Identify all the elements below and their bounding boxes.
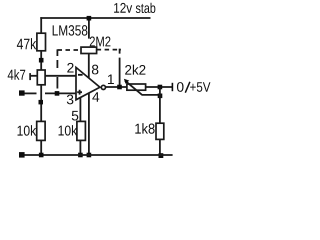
node dot pin4 rail bbox=[87, 153, 92, 158]
node dot wiper 1k8 bbox=[158, 94, 163, 99]
label 2M2 bbox=[90, 36, 111, 46]
pin label 2 bbox=[67, 63, 73, 73]
label LM358 bbox=[53, 25, 88, 35]
wire dashed feedback left horizontal bbox=[58, 49, 82, 51]
wire 10k mid to rail bbox=[79, 140, 81, 155]
wire pin4 down bbox=[88, 93, 90, 155]
node dot output feedback bbox=[117, 85, 122, 90]
label 10k mid bbox=[59, 125, 78, 136]
wire 1k8 upper bbox=[159, 87, 161, 123]
wire 10k left to bottom rail bbox=[40, 140, 42, 155]
pin label 3 bbox=[67, 95, 74, 105]
wire pin8 upper bbox=[88, 18, 90, 39]
trimmer 2k2 body bbox=[127, 84, 146, 90]
node dot pin3 feedback junction bbox=[55, 91, 60, 96]
node dot 10k mid rail bbox=[78, 153, 83, 158]
label 12v bbox=[114, 3, 132, 13]
pin label 5 bbox=[72, 111, 79, 121]
trimmer 2k2 arrowhead bbox=[124, 79, 129, 84]
op-amp minus sign bbox=[78, 74, 83, 76]
ground terminal square bbox=[19, 152, 25, 158]
node dot below 47k bbox=[39, 58, 44, 63]
label 47k bbox=[17, 38, 36, 49]
node dot chain rail bbox=[39, 153, 44, 158]
label stab bbox=[136, 3, 156, 13]
resistor 47k bbox=[37, 33, 46, 51]
wire dashed feedback left vertical bbox=[56, 49, 58, 88]
node dot 1k8 rail bbox=[159, 153, 164, 158]
wire 4k7 down to 10k bbox=[40, 85, 42, 122]
label 4k7 bbox=[8, 69, 26, 80]
wire 47k to 4k7 bbox=[40, 51, 42, 71]
op-amp output bubble bbox=[101, 85, 105, 89]
resistor 1k8 bbox=[156, 123, 164, 139]
op-amp plus sign bbox=[77, 90, 82, 95]
label +5V bbox=[190, 82, 210, 92]
output terminal tick bbox=[172, 83, 174, 91]
input terminal square pin3 line bbox=[19, 90, 25, 95]
resistor 10k mid bbox=[77, 121, 86, 140]
pin label 4 bbox=[92, 92, 99, 101]
input terminal tick bbox=[29, 73, 31, 80]
op-amp U1 LM358 triangle bbox=[76, 67, 100, 99]
trimmer wiper wire bbox=[142, 94, 160, 96]
wire input tick to 4k7 bbox=[30, 75, 37, 77]
resistor 10k left bbox=[37, 121, 45, 140]
wire dashed feedback right horizontal bbox=[97, 49, 121, 51]
wire pin3 left segment bbox=[25, 92, 37, 94]
wire 12V top rail bbox=[40, 17, 150, 19]
wire 2k2 to output terminal bbox=[146, 86, 173, 88]
wire output pin1 bbox=[106, 86, 128, 88]
bottom rail wire bbox=[25, 154, 173, 156]
wire 4k7 to op-amp pin2 bbox=[45, 75, 76, 77]
trimmer 2k2 arrow bbox=[125, 81, 142, 95]
node dot pin8 rail bbox=[87, 16, 92, 21]
wire pin5 down bbox=[79, 98, 81, 122]
label 2k2 bbox=[125, 65, 145, 75]
wire pin8 lower bbox=[88, 54, 90, 78]
label 10k left bbox=[18, 125, 37, 136]
pin label 1 bbox=[108, 75, 114, 84]
resistor 2M2 bbox=[81, 47, 97, 53]
node dot 1k8 top bbox=[158, 85, 163, 90]
pin label 8 bbox=[92, 65, 98, 75]
wire left chain top segment bbox=[40, 17, 42, 33]
label 0 bbox=[177, 82, 184, 92]
wire pin3 right segment bbox=[45, 92, 76, 94]
wire dashed feedback right vertical bbox=[119, 49, 121, 87]
resistor 4k7 bbox=[37, 70, 45, 85]
node dot on chain bbox=[39, 100, 44, 105]
label 1k8 bbox=[135, 123, 154, 134]
label slash of 0 / +5V bbox=[185, 82, 190, 93]
wire 1k8 lower bbox=[159, 139, 161, 155]
